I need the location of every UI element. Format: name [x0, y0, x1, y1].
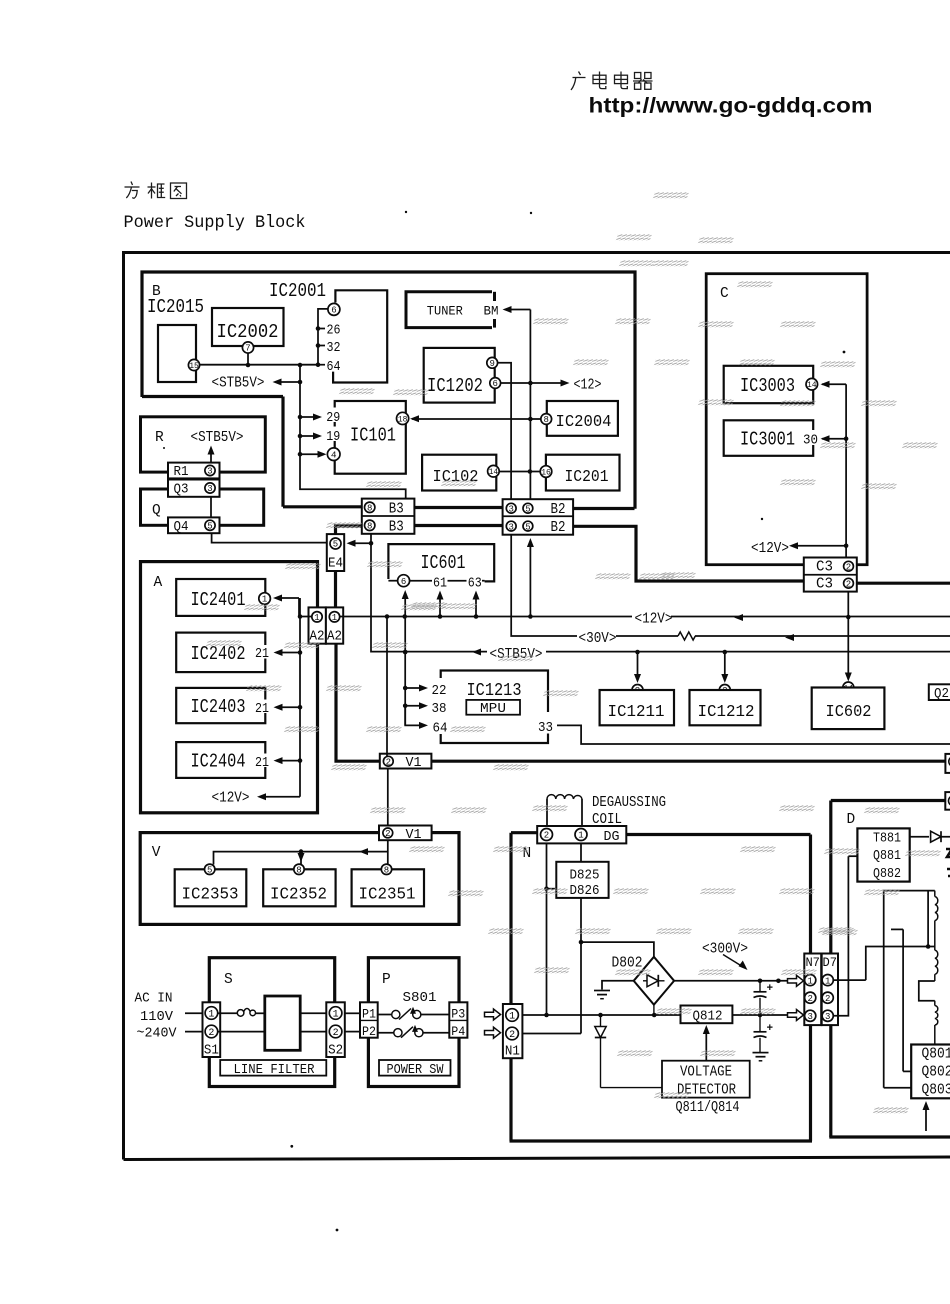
- IC2001 pin 6: [328, 303, 340, 315]
- IC1213 pin 33 label: [536, 716, 558, 736]
- svg-text:21: 21: [255, 647, 269, 662]
- ground symbol at capacitor: [753, 1053, 769, 1061]
- IC101 pin 19 label: [326, 427, 341, 446]
- svg-text:Q881: Q881: [873, 848, 901, 864]
- Q882 label: [873, 866, 901, 882]
- svg-text:POWER SW: POWER SW: [387, 1062, 445, 1078]
- T881 label: [873, 831, 901, 847]
- svg-text:8: 8: [367, 504, 372, 514]
- svg-text:8: 8: [296, 866, 301, 876]
- transistor Q3 label: [174, 483, 189, 498]
- N1 pin 2: [506, 1027, 519, 1041]
- wire T881 to D7 pin3: [834, 856, 858, 1016]
- svg-text:16: 16: [541, 468, 551, 477]
- svg-text:LINE FILTER: LINE FILTER: [234, 1062, 316, 1078]
- node P label: [382, 972, 391, 988]
- AC 240V label: [137, 1026, 178, 1042]
- IC601 label: [421, 552, 466, 574]
- svg-text:18: 18: [398, 415, 408, 424]
- IC2353 pin 5: [205, 864, 215, 875]
- wire B3 row2 to B2 row2: [414, 524, 502, 527]
- B2 pin 5 row1: [523, 503, 533, 514]
- svg-text:21: 21: [255, 756, 269, 771]
- wire R1 up arrow: [208, 446, 215, 463]
- A2 left pin 1: [312, 612, 322, 623]
- V1 lower label: [406, 827, 422, 843]
- A2 right pin 1: [329, 612, 339, 623]
- Q802 label: [922, 1065, 950, 1081]
- IC602 box: [812, 688, 885, 730]
- net 300V label: [702, 942, 748, 958]
- B3 pin 8 row1: [365, 502, 375, 513]
- DEGAUSSING label: [592, 795, 666, 811]
- capacitor C8xx lower: [754, 1015, 774, 1053]
- svg-text:5: 5: [525, 522, 530, 532]
- IC2002 pin7 drop wire: [246, 353, 251, 367]
- S2 pin 1: [329, 1007, 342, 1021]
- wire resistor chain top link: [884, 891, 935, 947]
- svg-text:<12V>: <12V>: [212, 791, 250, 807]
- IC2403 pin 21 label: [253, 700, 271, 718]
- svg-text:IC2004: IC2004: [556, 412, 612, 431]
- wire pin6 to 12 node: [501, 380, 570, 387]
- wire arrow into IC2401 pin1: [273, 595, 299, 616]
- N1 pin 1: [506, 1009, 519, 1023]
- svg-text:33: 33: [538, 720, 553, 736]
- R1 pin 3: [205, 465, 215, 476]
- wire 12V arrow block C: [789, 542, 846, 549]
- transistor Q2 box: [929, 684, 950, 700]
- COIL label: [592, 812, 622, 828]
- 30V label: [579, 631, 617, 647]
- svg-text:5: 5: [207, 866, 212, 876]
- B2 label row1: [551, 502, 566, 518]
- IC1211 label: [608, 702, 665, 721]
- C3 pin 2 row2: [844, 578, 854, 589]
- svg-text:110V: 110V: [140, 1009, 174, 1025]
- IC3003 label: [740, 375, 795, 397]
- IC2352 box: [263, 869, 335, 906]
- IC2002 pin 7: [242, 342, 253, 354]
- wire Q812 out: [732, 1013, 787, 1018]
- wire V1 upper to V1 lower: [387, 769, 389, 826]
- node A label: [154, 575, 163, 591]
- svg-text:6: 6: [492, 379, 497, 389]
- block B bottom edge: [142, 395, 283, 398]
- C3 pin 2 row1: [844, 561, 854, 572]
- block N border right: [809, 835, 812, 1142]
- DETECTOR label: [677, 1083, 736, 1099]
- svg-text:5: 5: [525, 504, 530, 514]
- wire arrow pin22: [405, 685, 428, 692]
- svg-text:Q: Q: [152, 503, 161, 519]
- V1 lower pin 2: [383, 828, 393, 839]
- svg-text:DEGAUSSING: DEGAUSSING: [592, 795, 666, 811]
- IC2004 box: [547, 401, 618, 436]
- svg-text:4: 4: [331, 450, 337, 461]
- wire switch to P4: [422, 1032, 449, 1034]
- IC101 box: [335, 401, 406, 474]
- svg-text:B3: B3: [389, 519, 404, 535]
- wire AC stub 2: [185, 1031, 203, 1033]
- IC601 pin 61 label: [433, 576, 447, 591]
- svg-text:S1: S1: [204, 1044, 219, 1059]
- svg-text:6: 6: [401, 577, 406, 587]
- node S label: [224, 972, 233, 988]
- IC2001 label: [269, 280, 326, 302]
- svg-text:Q3: Q3: [174, 483, 189, 498]
- block B border: [142, 272, 635, 509]
- block A border: [141, 562, 318, 813]
- svg-text:IC2353: IC2353: [182, 885, 239, 904]
- IC1213 pin 64 label: [433, 721, 448, 737]
- IC2001 pin 26 label: [327, 324, 341, 339]
- svg-text:3: 3: [207, 467, 212, 477]
- Q812 label: [693, 1009, 723, 1025]
- svg-text:2: 2: [386, 757, 391, 767]
- svg-text:3: 3: [825, 1012, 830, 1022]
- DG pin 2: [541, 829, 553, 841]
- svg-text:1: 1: [825, 976, 830, 986]
- svg-text:2: 2: [825, 994, 830, 1004]
- wire block A 12V feed vertical: [299, 598, 301, 797]
- svg-text:2: 2: [208, 1028, 214, 1039]
- connector C3 box: [804, 558, 857, 592]
- 12V label block A: [212, 791, 250, 807]
- Q801 label: [922, 1047, 950, 1063]
- wire S2 to P2: [345, 1031, 360, 1033]
- IC2351 box: [352, 869, 424, 906]
- wire S1 to filter bottom: [218, 1031, 265, 1033]
- open arrow P3 to N1: [485, 1009, 501, 1020]
- node N label: [523, 846, 532, 862]
- IC602 label: [826, 703, 872, 722]
- svg-text:IC2352: IC2352: [270, 885, 327, 904]
- connector A2 right box: [326, 607, 343, 643]
- svg-text:MPU: MPU: [480, 702, 506, 717]
- IC1213 pin 22 label: [432, 683, 447, 699]
- svg-text:VOLTAGE: VOLTAGE: [680, 1065, 732, 1081]
- LINE FILTER label: [234, 1062, 316, 1078]
- connector cut on V1 rail right: [945, 754, 950, 773]
- svg-text:+: +: [767, 983, 774, 995]
- IC2004 label: [556, 412, 612, 431]
- svg-text:B2: B2: [551, 502, 566, 518]
- resistor R88a: [935, 891, 938, 947]
- wire bridge plus output: [674, 979, 787, 984]
- node R label: [155, 430, 164, 446]
- P4 label: [451, 1024, 465, 1039]
- svg-text:Power Supply Block: Power Supply Block: [124, 213, 306, 233]
- IC2015 label: [147, 296, 204, 318]
- resistor R88b: [935, 947, 938, 982]
- svg-text:C3: C3: [816, 577, 833, 593]
- IC601 pin 6: [398, 575, 410, 587]
- block S border: [209, 958, 334, 1087]
- STB5V label block R: [191, 430, 244, 446]
- IC1202 box: [424, 348, 495, 403]
- P3 label: [451, 1007, 465, 1022]
- wire arrow into IC3001 pin30: [821, 435, 849, 442]
- svg-text:AC IN: AC IN: [135, 991, 173, 1007]
- Q4 pin 5: [205, 520, 215, 531]
- svg-text:30: 30: [803, 433, 818, 449]
- IC2351 pin 8: [381, 864, 391, 875]
- svg-text:2: 2: [807, 994, 812, 1004]
- svg-text:22: 22: [432, 683, 447, 699]
- svg-text:R1: R1: [174, 465, 189, 480]
- wire STB5V vertical feed: [300, 365, 406, 499]
- wire N1 pin2 link: [522, 1033, 581, 1035]
- svg-text:21: 21: [255, 702, 269, 717]
- IC101 pin 4: [327, 448, 340, 461]
- title text Power Supply Block: [124, 213, 306, 233]
- STB5V rail label: [487, 643, 546, 663]
- connector A2 left box: [309, 607, 326, 643]
- wire pin9 to B2: [498, 363, 512, 499]
- wire AC stub 1: [185, 1012, 203, 1014]
- svg-text:IC2001: IC2001: [269, 280, 326, 302]
- svg-text:IC1212: IC1212: [698, 702, 755, 721]
- D7 pin 2: [822, 992, 833, 1004]
- svg-text:1: 1: [262, 595, 267, 605]
- 12V rail junctions: [385, 614, 851, 619]
- IC2353 box: [175, 869, 247, 906]
- svg-text:D: D: [847, 812, 856, 828]
- transistors Q801 Q802 Q803 box: [911, 1045, 950, 1099]
- switch S801 pole 2: [378, 1025, 423, 1038]
- svg-text:A2: A2: [327, 630, 342, 645]
- svg-text:8: 8: [543, 415, 548, 425]
- wire arrow into E4 pin5: [347, 540, 374, 547]
- IC201 label: [565, 467, 609, 486]
- wire arrow IC1212 pin2: [721, 652, 728, 683]
- MPU box: [466, 700, 520, 715]
- svg-text:64: 64: [433, 721, 448, 737]
- TUNER pin BM label: [484, 304, 499, 319]
- paper scan smudges: [206, 192, 941, 1114]
- VOLTAGE label: [680, 1065, 732, 1081]
- svg-text:Q801: Q801: [922, 1047, 950, 1063]
- node V label: [152, 845, 161, 861]
- svg-text:P: P: [382, 972, 391, 988]
- svg-text:3: 3: [508, 504, 513, 514]
- svg-text:http://www.go-gddq.com: http://www.go-gddq.com: [589, 94, 873, 118]
- zener diode D8xx: [595, 1015, 606, 1088]
- svg-text:TUNER: TUNER: [427, 304, 463, 319]
- STB5V label block B: [212, 376, 265, 392]
- wire B2 row1 to block B edge: [573, 507, 634, 510]
- 12V label block C: [751, 541, 789, 557]
- switch S801 label: [403, 990, 437, 1006]
- N7 label: [805, 955, 820, 970]
- wire 12V to V1 upper: [386, 617, 388, 757]
- fuse symbol: [218, 1008, 265, 1016]
- LINE FILTER label box: [220, 1060, 326, 1076]
- svg-text:63: 63: [468, 576, 482, 591]
- svg-text:38: 38: [432, 701, 447, 717]
- IC201 box: [546, 455, 620, 491]
- wire arrow IC601 pin63: [473, 591, 480, 617]
- wire S2 to P1: [345, 1012, 360, 1014]
- wire arrow pin38: [405, 702, 428, 709]
- block Q border: [141, 489, 264, 525]
- svg-text:B3: B3: [389, 501, 404, 517]
- ground symbol at bridge: [594, 991, 610, 999]
- A2 left label: [310, 630, 325, 645]
- AC IN label: [135, 991, 173, 1007]
- svg-text:1: 1: [509, 1012, 515, 1023]
- IC2404 label: [191, 751, 246, 773]
- svg-text:2: 2: [333, 1028, 339, 1039]
- E4 pin 5: [330, 538, 341, 550]
- transformer T881 box: [857, 828, 909, 881]
- wire arrow into IC2404 pin21: [274, 757, 303, 764]
- wire arrow IC1211 pin8: [634, 652, 641, 683]
- svg-text:1: 1: [314, 613, 319, 623]
- wire B2 row2 pin5 arrow: [527, 538, 534, 617]
- svg-text:C: C: [720, 286, 729, 302]
- resistor R88c: [935, 1001, 938, 1045]
- S1 pin 2: [205, 1025, 218, 1039]
- B2 pin 5 row2: [523, 521, 533, 532]
- IC3001 label: [740, 429, 795, 451]
- bus A2 to V1 rail: [336, 644, 380, 761]
- svg-text:15: 15: [189, 362, 199, 371]
- IC2004 pin 8: [541, 414, 552, 426]
- svg-text:1: 1: [333, 1010, 339, 1021]
- IC3001 box: [724, 420, 814, 456]
- wire filter out bottom: [300, 1031, 327, 1033]
- S1 pin 1: [205, 1007, 218, 1021]
- IC601 pin wires: [388, 580, 484, 582]
- D7 pin 3: [822, 1010, 833, 1022]
- diagram outer border: [124, 253, 950, 1160]
- wire D826 to bridge: [579, 898, 654, 1034]
- B2 label row2: [551, 520, 566, 536]
- fusible resistor Q812 box: [681, 1006, 733, 1024]
- wire BM arrow: [503, 306, 531, 313]
- IC1212 pin 2: [719, 685, 730, 697]
- wire DG pin2 drop: [544, 844, 556, 1018]
- svg-text:2: 2: [385, 829, 390, 839]
- svg-text:IC3001: IC3001: [740, 429, 795, 451]
- capacitor C8xx upper: [754, 981, 774, 1015]
- svg-text:V: V: [152, 845, 161, 861]
- svg-text:<12V>: <12V>: [635, 612, 673, 628]
- transistor Q4 label: [174, 520, 189, 535]
- connector B3 box: [362, 499, 415, 534]
- svg-text:IC201: IC201: [565, 467, 609, 486]
- S2 label: [328, 1044, 343, 1059]
- P2 label: [362, 1024, 376, 1039]
- IC2401 pin 1: [259, 593, 271, 605]
- svg-text:26: 26: [327, 324, 341, 339]
- wire N1 pin1 300V return: [522, 1005, 680, 1018]
- wire bridge minus to ground: [602, 981, 634, 990]
- open arrow to N7 pin1: [788, 975, 804, 986]
- MPU label: [480, 702, 506, 717]
- block V border: [140, 833, 459, 925]
- svg-text:1: 1: [807, 976, 812, 986]
- cut glyph marks right edge: [946, 849, 950, 876]
- wire IC1213 pin feed: [403, 652, 408, 725]
- svg-text:5: 5: [333, 540, 338, 550]
- connector S1 box: [203, 1002, 221, 1057]
- IC102 label: [433, 467, 479, 486]
- wire arrow pin64: [405, 706, 428, 729]
- node 12 label: [574, 378, 602, 394]
- connector N1 box: [503, 1004, 523, 1058]
- svg-text:2: 2: [544, 831, 549, 841]
- connector P3 P4 box: [449, 1002, 467, 1037]
- IC1213 label: [467, 681, 522, 701]
- IC1213 pin 38 label: [432, 701, 447, 717]
- wire arrow to pin19: [298, 433, 322, 440]
- svg-text:1: 1: [332, 613, 337, 623]
- block R border: [141, 417, 266, 472]
- svg-text:A: A: [154, 575, 163, 591]
- IC1202 pin 9: [487, 357, 498, 369]
- header URL text: [589, 94, 873, 118]
- bus E to A2 vertical: [334, 571, 337, 607]
- svg-text:P4: P4: [451, 1024, 465, 1039]
- B3 label row2: [389, 519, 404, 535]
- wire B3 row1 to B2 row1: [414, 506, 502, 509]
- IC102 pin 14: [488, 465, 500, 477]
- Q3 pin 3: [205, 483, 215, 494]
- transistor Q2 label: [934, 686, 949, 702]
- svg-text:IC2401: IC2401: [191, 589, 246, 611]
- resistor on 30V line: [678, 632, 695, 640]
- N1 label: [505, 1045, 520, 1060]
- transistor Q4 box: [168, 517, 220, 533]
- wire arrow IC601 pin6: [402, 590, 409, 654]
- open arrow to N7 pin3: [788, 1010, 804, 1021]
- degaussing coil symbol: [547, 795, 582, 827]
- svg-text:2: 2: [846, 562, 851, 572]
- IC101 pin 18: [397, 412, 409, 424]
- IC1211 box: [600, 690, 674, 725]
- wire V1 distribution: [214, 840, 388, 864]
- svg-text:64: 64: [327, 360, 341, 375]
- svg-text:14: 14: [807, 381, 817, 390]
- svg-text:6: 6: [331, 306, 336, 316]
- svg-text:1: 1: [208, 1010, 214, 1021]
- IC2001 pin 64 label: [327, 360, 341, 375]
- IC2402 pin 21 label: [253, 645, 271, 662]
- resistor R1 label: [174, 465, 189, 480]
- svg-text:T881: T881: [873, 831, 901, 847]
- wire arrow into IC2402 pin21: [274, 649, 303, 656]
- connector E4 box: [327, 534, 344, 571]
- 12V rail arrow: [734, 614, 743, 621]
- wire arrow IC601 pin61: [437, 591, 444, 617]
- svg-text:7: 7: [245, 344, 250, 354]
- connector P1 P2 box: [360, 1002, 378, 1037]
- svg-text:Q811/Q814: Q811/Q814: [676, 1100, 740, 1116]
- svg-text:IC1202: IC1202: [427, 375, 483, 397]
- svg-text:8: 8: [384, 866, 389, 876]
- svg-text:<12V>: <12V>: [751, 541, 789, 557]
- IC3003 box: [724, 366, 814, 403]
- bridge rectifier D802: [634, 957, 674, 1005]
- svg-text:IC101: IC101: [350, 425, 396, 447]
- wire filter out top: [300, 1012, 327, 1014]
- svg-text:<STB5V>: <STB5V>: [191, 430, 244, 446]
- svg-text:Q812: Q812: [693, 1009, 723, 1025]
- svg-text:P2: P2: [362, 1024, 376, 1039]
